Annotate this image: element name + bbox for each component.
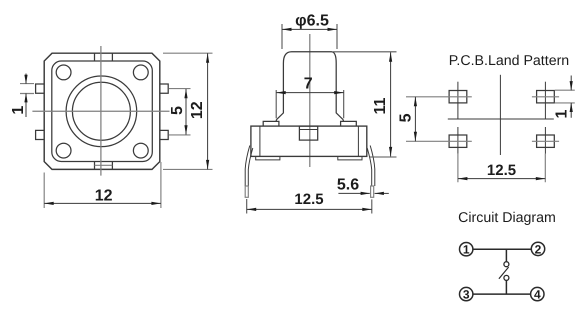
svg-text:11: 11 — [372, 97, 389, 114]
dim 12 (right) arrow down — [206, 160, 209, 170]
corner hole bottom-right — [133, 143, 148, 158]
standoff foot left — [256, 156, 280, 160]
svg-text:5.6: 5.6 — [337, 177, 359, 194]
pad top-left cross vertical — [457, 82, 459, 119]
pad bottom-right cross vertical — [544, 127, 546, 154]
terminal 2 circle — [531, 242, 544, 255]
button outer circle — [66, 76, 137, 147]
svg-text:2: 2 — [535, 242, 542, 256]
right leg wire — [367, 146, 375, 187]
right leg solder tip — [371, 186, 374, 197]
svg-text:12: 12 — [189, 101, 206, 119]
dim 11 arrow down — [389, 147, 392, 157]
body main box — [251, 126, 367, 156]
pattern center line vertical — [499, 75, 501, 155]
pad top-right center line — [532, 96, 559, 98]
body top boss left — [263, 121, 279, 126]
left leg solder tip — [245, 186, 248, 197]
terminal 3 circle — [460, 287, 473, 300]
dim 12.5 (front) extension lines — [247, 199, 372, 214]
svg-text:12.5: 12.5 — [487, 162, 516, 179]
dim 12.5 (land) extension lines — [458, 154, 545, 183]
dim phi6.5 arrow right — [328, 28, 338, 31]
wire top — [473, 248, 531, 250]
switch blade — [499, 267, 509, 279]
dim 5.6 dimension line left part — [338, 192, 369, 194]
plunger skirt right — [342, 120, 344, 122]
dim 12.5 (front) arrow right — [362, 208, 372, 211]
dim 12 (bottom) dimension line — [44, 202, 161, 204]
dim 5 (land) arrow up — [414, 97, 417, 107]
dim 1 (land) arrow up — [570, 103, 573, 113]
pattern center line horizontal — [448, 118, 554, 120]
dim 12.5 (front) arrow left — [247, 208, 257, 211]
dim 12 (bottom of top view) extension lines — [44, 162, 161, 208]
right side tab lower — [160, 130, 168, 139]
center stem notch step — [299, 129, 317, 131]
dim 5.6 arrow right — [361, 192, 371, 195]
svg-text:4: 4 — [534, 288, 541, 302]
right side tab upper — [160, 84, 168, 93]
body inner edge right — [357, 126, 359, 156]
switch body outline (chamfered square) — [44, 53, 160, 169]
dim 11 extension lines — [333, 52, 397, 157]
left side tab upper — [36, 84, 45, 93]
dim phi6.5 arrow left — [282, 28, 292, 31]
dim 5.6 dimension line right part — [375, 192, 389, 194]
top center tab — [95, 53, 113, 61]
svg-text:12: 12 — [95, 187, 113, 204]
left side tab lower — [36, 130, 45, 139]
dim 1 (land) dimension line — [570, 76, 572, 118]
dim 12 (right of top view) extension lines — [163, 53, 213, 169]
switch contact upper — [504, 262, 509, 267]
dim 12.5 (land) arrow left — [458, 177, 468, 180]
pad bottom-right — [537, 135, 555, 147]
svg-text:1: 1 — [554, 109, 571, 118]
dim 1 (land) arrow down — [570, 81, 573, 91]
terminal 1 circle — [460, 243, 473, 256]
pad top-left center line — [406, 96, 472, 98]
dim 5 (land) arrow down — [414, 132, 417, 142]
corner hole top-right — [133, 65, 148, 80]
body top boss right — [341, 121, 357, 126]
dim 11 dimension line — [390, 52, 392, 156]
dim 12 (bottom) arrow right — [151, 202, 161, 205]
wire stub top — [505, 249, 507, 261]
dim phi6.5 dimension line — [282, 28, 337, 30]
pad bottom-left — [449, 135, 467, 147]
dim 11 arrow up — [389, 52, 392, 62]
body inner edge left — [259, 126, 261, 156]
svg-text:3: 3 — [463, 288, 470, 302]
bottom tab inner line — [95, 164, 113, 166]
pad top-left — [449, 91, 467, 103]
dim 7 arrow right — [334, 91, 344, 94]
standoff foot right — [338, 156, 362, 160]
svg-text:1: 1 — [10, 106, 27, 115]
svg-text:7: 7 — [304, 76, 313, 93]
dim 12 (bottom) arrow left — [44, 202, 54, 205]
dim 1 (left) arrow down — [24, 75, 27, 85]
terminal 4 circle — [531, 287, 544, 300]
inner rounded square — [52, 61, 153, 162]
dim 5 arrow down — [184, 125, 187, 135]
plunger (button) outline — [276, 52, 343, 120]
center line horizontal — [32, 110, 169, 112]
dim 5 arrow up — [184, 89, 187, 99]
pad bottom-left center line — [406, 140, 472, 142]
wire bottom — [473, 293, 531, 295]
dim 12.5 (land) arrow right — [536, 177, 546, 180]
svg-text:1: 1 — [463, 243, 470, 257]
svg-text:Circuit Diagram: Circuit Diagram — [458, 210, 556, 226]
dim 1 (left) extension lines — [20, 84, 34, 94]
wire stub bottom — [505, 281, 507, 295]
button inner circle — [72, 82, 130, 140]
pad bottom-left cross vertical — [457, 127, 459, 154]
center stem notch — [299, 126, 317, 140]
dim 5.6 arrow left — [374, 192, 384, 195]
left leg wire — [245, 146, 253, 187]
corner hole top-left — [56, 65, 71, 80]
dim 7 dimension line — [276, 92, 344, 94]
center line vertical — [309, 34, 311, 167]
dim 1 (land) extension lines — [555, 90, 575, 103]
svg-text:5: 5 — [398, 113, 415, 122]
dim 12 (right) arrow up — [206, 53, 209, 63]
dim 1 (left) arrow up — [24, 93, 27, 103]
dim 7 arrow left — [276, 91, 286, 94]
pad bottom-right center line — [532, 140, 559, 142]
dim 5 (right of top view) dimension line — [185, 89, 187, 135]
svg-text:P.C.B.Land Pattern: P.C.B.Land Pattern — [449, 53, 569, 69]
dim 5 (right of top view) extension lines — [169, 89, 191, 135]
dim 12 (right) dimension line — [207, 53, 209, 169]
svg-text:φ6.5: φ6.5 — [295, 13, 329, 30]
pad top-right cross vertical — [544, 82, 546, 119]
dim 1 (left) dimension line — [25, 74, 27, 118]
dim 12.5 (land) dimension line — [458, 178, 545, 180]
corner hole bottom-left — [56, 143, 71, 158]
svg-text:5: 5 — [169, 106, 186, 115]
dim 12.5 (front) dimension line — [247, 208, 372, 210]
dim 5 (land) dimension line — [414, 97, 416, 142]
dim 7 extension lines — [276, 90, 344, 118]
center line vertical — [100, 46, 102, 176]
plunger skirt left — [275, 120, 277, 122]
dim phi6.5 extension lines — [282, 24, 337, 49]
bottom center tab — [95, 162, 113, 170]
switch contact lower — [504, 275, 509, 280]
svg-text:12.5: 12.5 — [294, 191, 323, 208]
pad top-right — [537, 91, 555, 103]
